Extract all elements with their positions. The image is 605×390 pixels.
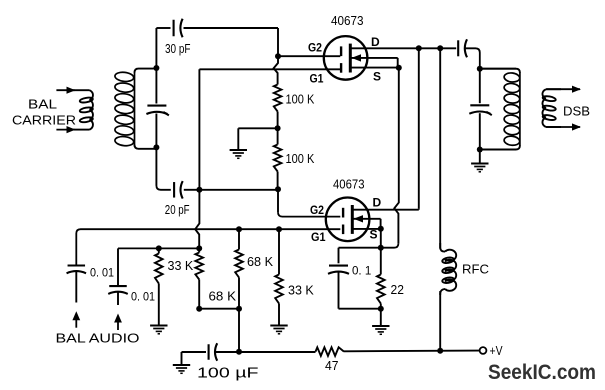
svg-text:D: D — [371, 35, 380, 49]
svg-text:0. 01: 0. 01 — [90, 266, 114, 280]
svg-text:G1: G1 — [311, 230, 326, 244]
svg-text:100 K: 100 K — [286, 91, 315, 106]
svg-text:BAL AUDIO: BAL AUDIO — [56, 332, 140, 346]
svg-text:G2: G2 — [308, 40, 322, 54]
svg-text:S: S — [370, 228, 378, 242]
svg-text:0. 01: 0. 01 — [131, 290, 155, 304]
svg-text:G1: G1 — [310, 72, 324, 86]
svg-text:BAL: BAL — [28, 98, 57, 112]
svg-text:68 K: 68 K — [209, 289, 237, 304]
svg-text:DSB: DSB — [563, 105, 590, 119]
svg-text:RFC: RFC — [462, 262, 489, 277]
svg-text:0. 1: 0. 1 — [352, 264, 371, 278]
svg-text:47: 47 — [325, 358, 339, 373]
svg-text:G2: G2 — [310, 203, 324, 217]
svg-text:30 pF: 30 pF — [165, 42, 191, 56]
svg-text:40673: 40673 — [333, 176, 365, 191]
svg-text:100 K: 100 K — [286, 151, 315, 166]
svg-text:D: D — [373, 196, 382, 210]
svg-text:33 K: 33 K — [288, 283, 314, 298]
svg-text:S: S — [373, 70, 381, 84]
svg-text:+V: +V — [490, 343, 503, 358]
svg-text:20 pF: 20 pF — [165, 203, 190, 217]
svg-text:SeekIC.com: SeekIC.com — [488, 361, 596, 384]
svg-text:68 K: 68 K — [247, 254, 273, 269]
svg-text:40673: 40673 — [331, 13, 364, 28]
svg-text:22: 22 — [391, 282, 404, 297]
svg-text:33 K: 33 K — [168, 258, 194, 273]
svg-text:CARRIER: CARRIER — [12, 114, 76, 128]
svg-text:100 µF: 100 µF — [197, 366, 259, 382]
